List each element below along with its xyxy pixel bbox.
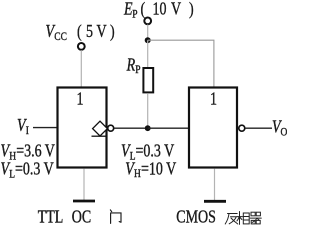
output bubble of U2: [239, 125, 245, 131]
glyph men (door): [110, 210, 121, 224]
label TTL OC men (gate caption): [38, 208, 92, 227]
ground of U1: [73, 200, 95, 203]
gate U1 TTL OC box: [58, 88, 107, 168]
label VH=3.6 V at input: [1, 142, 56, 162]
svg-text:1: 1: [210, 90, 217, 109]
svg-text:CC: CC: [54, 30, 67, 43]
svg-text:TTL: TTL: [38, 208, 64, 226]
svg-text:V: V: [97, 23, 108, 42]
svg-text:10: 10: [153, 0, 167, 19]
gate U2 CMOS inverter box: [189, 88, 237, 168]
glyph xiang: [237, 212, 249, 225]
resistor RP: [143, 68, 153, 92]
label VL=0.3 V at input: [1, 160, 55, 180]
terminal EP: [144, 18, 151, 25]
label VO: [272, 118, 288, 138]
svg-text:CMOS: CMOS: [176, 208, 216, 226]
wire node A to CMOS supply corner: [148, 40, 214, 87]
wire VI input to gate U1: [33, 127, 57, 129]
label VCC (5 V): [46, 23, 115, 43]
pin label 1 of U2: [210, 90, 217, 109]
glyph fan: [225, 214, 238, 225]
node A junction dot: [145, 37, 151, 43]
svg-text:=0.3 V: =0.3 V: [136, 142, 175, 161]
label VH=10 V at node B: [125, 160, 176, 180]
svg-text:I: I: [26, 124, 30, 137]
node B junction dot: [145, 125, 151, 131]
svg-text:=0.3 V: =0.3 V: [15, 160, 54, 179]
wire EP to node A: [147, 25, 149, 41]
pin label 1 of U1: [77, 90, 84, 109]
label EP (10 V): [123, 0, 194, 20]
wire U2 output to VO: [245, 127, 272, 129]
svg-text:V: V: [171, 0, 182, 19]
ground of U2: [204, 200, 226, 203]
svg-text:O: O: [281, 125, 288, 138]
output bubble of U1: [108, 125, 114, 131]
wire node A to resistor RP: [147, 40, 149, 68]
svg-text:P: P: [135, 63, 140, 76]
label VL=0.3 V at node B: [121, 142, 175, 162]
svg-text:1: 1: [77, 90, 84, 109]
terminal VCC: [78, 43, 85, 50]
wire U2 to ground: [214, 169, 216, 201]
label VI: [17, 117, 29, 137]
svg-text:): ): [189, 0, 194, 19]
svg-text:=10 V: =10 V: [141, 160, 177, 179]
svg-text:(: (: [141, 0, 146, 19]
open-collector diamond symbol of U1: [92, 121, 108, 136]
svg-text:=3.6 V: =3.6 V: [16, 142, 55, 161]
wire U1 to ground: [83, 169, 85, 201]
glyph qi: [250, 212, 261, 224]
svg-text:P: P: [132, 7, 137, 20]
svg-text:R: R: [126, 56, 136, 75]
svg-text:H: H: [134, 167, 141, 180]
wire resistor RP to node B: [147, 93, 149, 128]
svg-text:(: (: [77, 23, 82, 42]
svg-text:5: 5: [86, 23, 93, 42]
wire VCC to gate U1 top: [80, 50, 82, 87]
wire U1 output to node B: [114, 127, 148, 129]
svg-text:): ): [110, 23, 115, 42]
label CMOS fanxiangqi (gate caption): [176, 208, 216, 227]
label RP: [126, 56, 141, 76]
wire node B to gate U2 input: [148, 127, 189, 129]
svg-text:OC: OC: [72, 208, 91, 226]
